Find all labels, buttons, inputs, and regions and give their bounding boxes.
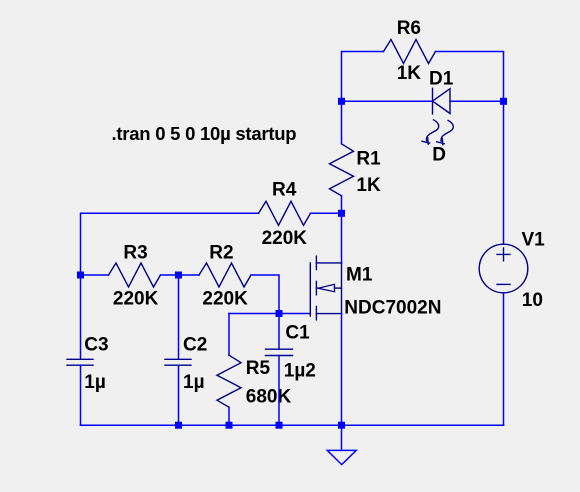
wire: node B down to V1 plus terminal [503, 101, 505, 244]
wire: R1 bottom lead to R4 node [341, 196, 343, 214]
wire: R3 right lead to C2 node [161, 274, 200, 276]
svg-text:M1: M1 [346, 265, 373, 286]
wire: R3 left lead [81, 274, 109, 276]
junction: C2 node at R3/R2 row [175, 272, 182, 279]
svg-text:1µ: 1µ [84, 372, 106, 393]
wire: D1 anode to node B [450, 100, 504, 102]
junction: node B at D1 row [500, 98, 507, 105]
wire: node A from R4 down to M1 drain [341, 213, 343, 263]
wire: top rail from node A up and to R6 left lead [342, 52, 384, 102]
wire: ground stub [341, 425, 343, 450]
wire: R2 right lead turning down to gate row [251, 275, 279, 314]
svg-text:R6: R6 [397, 18, 421, 39]
junction: R5 bottom at rail [226, 422, 233, 429]
svg-text:R4: R4 [272, 180, 297, 201]
svg-text:220K: 220K [113, 288, 159, 309]
svg-text:R3: R3 [123, 243, 147, 264]
wire: C3 top lead from left column [80, 275, 82, 359]
svg-text:680K: 680K [246, 386, 292, 407]
svg-text:R5: R5 [246, 358, 271, 379]
junction: C1 bottom at rail [276, 422, 283, 429]
wire: C2 top lead [178, 275, 180, 359]
wire: R4 row from left column [81, 213, 259, 275]
svg-text:C3: C3 [84, 335, 108, 356]
svg-text:.tran 0 5 0 10µ startup: .tran 0 5 0 10µ startup [112, 123, 297, 144]
wire: D1 row left segment (node A to cathode) [342, 100, 433, 102]
svg-text:220K: 220K [202, 288, 248, 309]
junction: node A at rail (ground tap) [338, 422, 345, 429]
wire: C1 bottom lead to bottom rail [278, 356, 280, 426]
wire: bottom rail [81, 424, 504, 426]
junction: C1/gate node [276, 310, 283, 317]
wire: V1 minus terminal down to bottom rail [503, 293, 505, 425]
resistor R6 [384, 40, 436, 64]
wire: R4 right lead to node A [311, 212, 342, 214]
svg-text:1µ: 1µ [183, 372, 205, 393]
svg-text:1µ2: 1µ2 [284, 360, 316, 381]
resistor R1 [330, 144, 354, 196]
ground [327, 450, 356, 464]
resistor R5 [217, 355, 241, 407]
junction: node A at R4 row [338, 210, 345, 217]
resistor R4 [259, 201, 311, 225]
svg-text:D: D [432, 145, 446, 166]
svg-text:1K: 1K [356, 175, 381, 196]
svg-text:V1: V1 [522, 229, 546, 250]
wire: C3 bottom lead to bottom rail [80, 365, 82, 425]
svg-text:R1: R1 [356, 149, 381, 170]
wire: C2 bottom lead to bottom rail [178, 365, 180, 425]
svg-text:R2: R2 [209, 243, 233, 264]
svg-text:220K: 220K [262, 228, 308, 249]
wire: C1 top lead from gate node [278, 314, 280, 350]
wire: R6 right lead to node B down to D1 right node [436, 52, 504, 102]
wire: R1 top lead from D1 row [341, 101, 343, 144]
resistor R2 [199, 263, 251, 287]
svg-text:1K: 1K [397, 63, 422, 84]
transistor M1 (NMOS) [310, 256, 341, 320]
svg-text:10: 10 [522, 290, 543, 311]
voltage source V1 [479, 244, 528, 293]
resistor R3 [109, 263, 161, 287]
junction: node A at D1 row [338, 98, 345, 105]
diode D1 (LED) [422, 88, 453, 144]
capacitor C1 [266, 349, 293, 355]
wire: R5 bottom lead to bottom rail [228, 407, 230, 425]
capacitor C3 [67, 359, 93, 365]
capacitor C2 [165, 359, 191, 365]
svg-text:C1: C1 [285, 323, 310, 344]
junction: left column at R3 row [77, 272, 84, 279]
svg-text:NDC7002N: NDC7002N [344, 298, 441, 319]
wire: M1 source down to bottom rail [341, 314, 343, 426]
svg-text:C2: C2 [183, 335, 207, 356]
svg-text:D1: D1 [429, 69, 454, 90]
junction: C2 bottom at rail [175, 422, 182, 429]
wire: gate row horizontal (R5 top to M1 gate) [229, 313, 310, 315]
wire: R5 top lead down from gate row [228, 314, 230, 356]
